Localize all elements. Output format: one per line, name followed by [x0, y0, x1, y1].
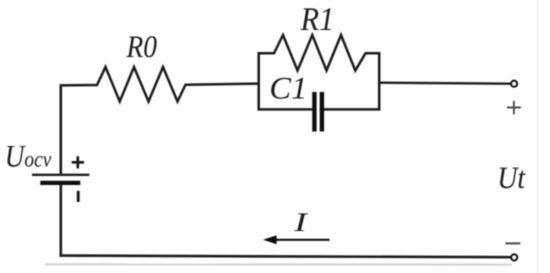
- svg-text:R0: R0: [126, 30, 157, 65]
- svg-text:Ut: Ut: [497, 161, 526, 195]
- svg-text:I: I: [293, 209, 309, 238]
- svg-text:R1: R1: [300, 1, 335, 38]
- svg-text:Uocv: Uocv: [5, 140, 52, 175]
- svg-text:C1: C1: [269, 72, 307, 107]
